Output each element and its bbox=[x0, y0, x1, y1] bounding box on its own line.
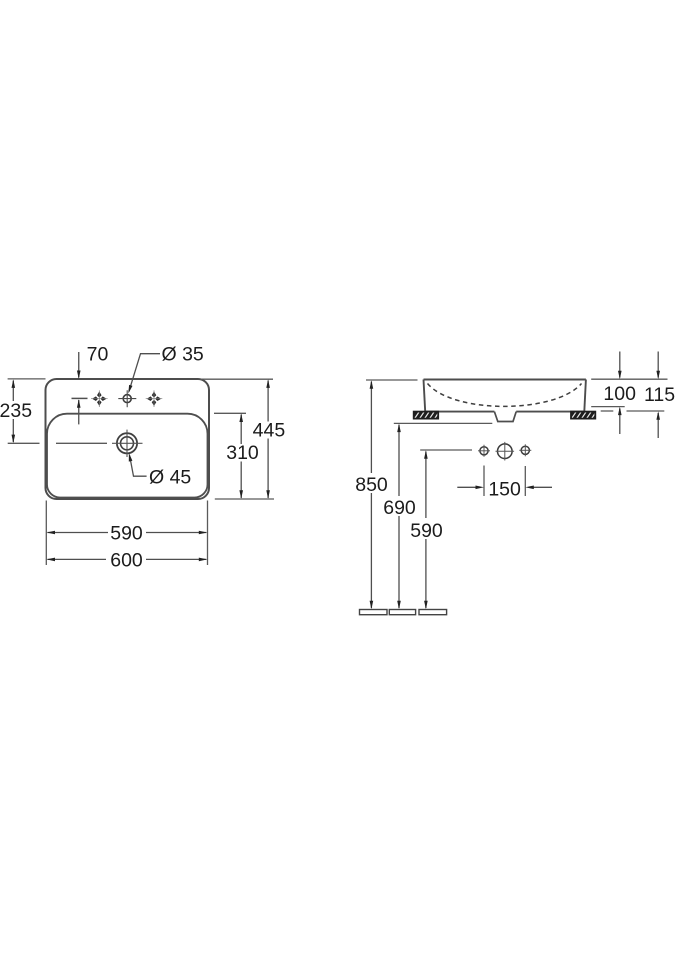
floor reference tiles bbox=[360, 610, 447, 615]
plan view: drain hole (Ø45) concentric circles bbox=[117, 433, 137, 453]
dimension 590 (plan, lower width) bbox=[46, 501, 207, 566]
svg-text:310: 310 bbox=[226, 442, 259, 464]
dimension 100 (basin height to bracket) bbox=[591, 352, 667, 435]
elevation: left mounting bracket (hatched) bbox=[413, 409, 446, 421]
svg-text:590: 590 bbox=[410, 520, 443, 542]
svg-text:590: 590 bbox=[110, 522, 143, 544]
plan view: right optional tap hole cross mark bbox=[146, 390, 163, 407]
svg-text:100: 100 bbox=[603, 383, 636, 405]
plan view: basin inner bowl outline bbox=[47, 414, 208, 498]
dimension 115 (overall basin height) bbox=[601, 352, 675, 439]
elevation: wall fixing hole right (small) bbox=[519, 444, 531, 456]
svg-text:115: 115 bbox=[644, 384, 675, 406]
svg-text:70: 70 bbox=[87, 344, 109, 366]
svg-text:Ø 45: Ø 45 bbox=[149, 466, 191, 488]
dimension 600 (plan, overall width) bbox=[47, 550, 208, 572]
dimension 310 (inner bowl depth) bbox=[214, 413, 259, 499]
elevation: wall fixing hole left (small) bbox=[478, 445, 490, 457]
svg-text:600: 600 bbox=[110, 550, 143, 572]
plan view: basin outer rim (rounded rectangle 600x445) bbox=[46, 379, 210, 499]
plan view: drain crosshair centerlines bbox=[112, 430, 143, 457]
svg-text:850: 850 bbox=[355, 474, 388, 496]
dimension 150 (fixing hole spacing) bbox=[457, 466, 552, 501]
svg-text:690: 690 bbox=[383, 497, 416, 519]
elevation: basin body outline bbox=[424, 380, 586, 412]
plan view: faucet hole circle (Ø35) bbox=[123, 395, 131, 403]
elevation: wall fixing hole center (large) bbox=[496, 442, 515, 461]
dimension 70 (tap hole centerline offset) bbox=[72, 344, 109, 425]
elevation: drain outlet trapezoid bbox=[494, 412, 516, 422]
svg-text:150: 150 bbox=[488, 478, 521, 500]
dimension 690 (floor to underside) bbox=[383, 423, 492, 609]
svg-text:445: 445 bbox=[253, 419, 286, 441]
svg-text:Ø 35: Ø 35 bbox=[162, 344, 204, 366]
plan view: faucet hole crosshair bbox=[118, 390, 136, 407]
elevation: right mounting bracket (hatched) bbox=[570, 409, 603, 421]
elevation: inner bowl dashed profile bbox=[428, 384, 582, 407]
label Ø35 with leader arrow to faucet hole bbox=[128, 344, 204, 394]
dimension 235 (left, top edge to drain center) bbox=[0, 379, 107, 443]
dimension 590 (floor to fixing holes) bbox=[410, 450, 472, 609]
dimension 850 (floor to rim) bbox=[355, 380, 417, 609]
label Ø45 with leader arrow to drain bbox=[129, 453, 192, 488]
plan view: left optional tap hole cross mark bbox=[91, 390, 108, 407]
dimension 445 (right, overall depth) bbox=[200, 379, 285, 499]
svg-text:235: 235 bbox=[0, 400, 32, 422]
